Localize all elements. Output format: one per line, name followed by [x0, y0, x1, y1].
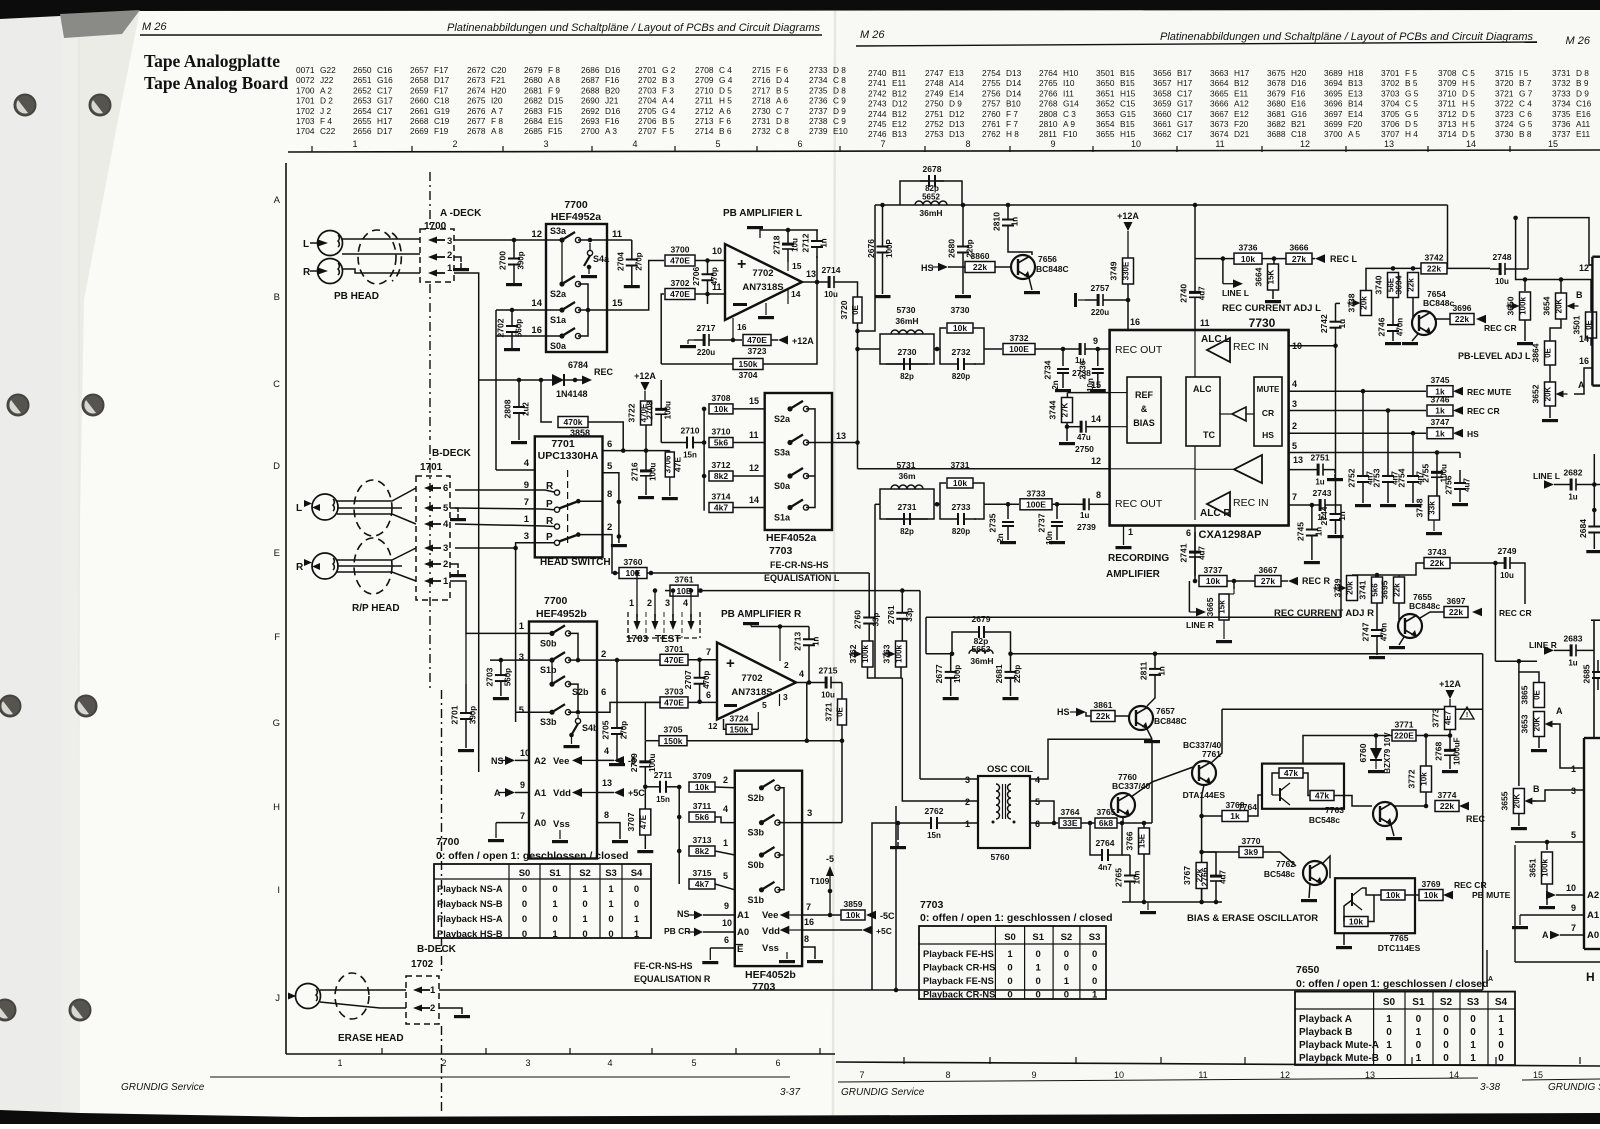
IC 7703b HEF4052b box — [735, 771, 802, 966]
svg-text:3861: 3861 — [1094, 700, 1113, 710]
wire pin5 row — [1289, 452, 1460, 454]
svg-text:2742: 2742 — [1319, 314, 1329, 333]
svg-text:4u7: 4u7 — [1198, 286, 1207, 300]
svg-text:0: 0 — [1443, 1053, 1449, 1064]
svg-text:2760: 2760 — [853, 610, 863, 629]
MUTE CR HS sub-box — [1254, 377, 1282, 446]
svg-text:0: 0 — [1498, 1053, 1504, 1064]
svg-text:0: 0 — [522, 899, 527, 910]
svg-text:S4: S4 — [1495, 997, 1508, 1008]
svg-text:33k: 33k — [1428, 501, 1437, 515]
wire 3709 to S2b — [715, 786, 735, 789]
svg-text:D14: D14 — [1006, 78, 1022, 88]
svg-text:2654: 2654 — [353, 106, 372, 116]
svg-text:GRUNDIG S: GRUNDIG S — [1548, 1082, 1600, 1093]
svg-text:G: G — [273, 718, 280, 729]
bottom scan strip — [0, 1110, 1600, 1124]
svg-text:13: 13 — [1293, 455, 1303, 465]
svg-text:3695: 3695 — [1380, 580, 1390, 599]
svg-text:2: 2 — [430, 1003, 435, 1014]
svg-text:2762: 2762 — [925, 806, 944, 816]
svg-text:3864: 3864 — [1531, 343, 1541, 362]
capacitor 2750 47u — [1066, 422, 1068, 427]
wire osc pin5 — [1030, 801, 1054, 823]
svg-text:3702: 3702 — [671, 278, 690, 288]
svg-text:F15: F15 — [548, 126, 563, 136]
svg-text:&: & — [1141, 404, 1148, 414]
svg-text:47k: 47k — [1315, 791, 1329, 801]
wire diode to flag — [564, 379, 582, 381]
svg-text:270p: 270p — [634, 252, 643, 270]
svg-text:1: 1 — [519, 621, 525, 632]
svg-text:6: 6 — [797, 139, 802, 149]
svg-text:7: 7 — [1292, 492, 1297, 502]
wire rec cr net right — [1495, 660, 1537, 662]
svg-text:7650: 7650 — [1296, 964, 1320, 976]
svg-text:3714: 3714 — [1438, 129, 1457, 139]
wire 3860 to base — [995, 266, 1011, 268]
svg-text:2755: 2755 — [1421, 464, 1431, 483]
svg-text:390p: 390p — [517, 251, 526, 269]
svg-text:B 5: B 5 — [662, 116, 675, 126]
svg-text:A 3: A 3 — [605, 126, 617, 136]
svg-text:1702: 1702 — [411, 959, 434, 970]
svg-text:H 4: H 4 — [1405, 129, 1418, 139]
footer right — [838, 1078, 1478, 1082]
svg-text:3k9: 3k9 — [1244, 847, 1258, 857]
svg-text:Vss: Vss — [553, 819, 570, 830]
resistor 3765 6k8 — [1095, 818, 1117, 828]
svg-text:470E: 470E — [670, 256, 690, 266]
svg-text:F10: F10 — [1063, 129, 1078, 139]
op-amp top supply wire — [760, 229, 818, 231]
svg-text:7762: 7762 — [1276, 859, 1295, 869]
svg-text:470n: 470n — [1380, 623, 1389, 641]
svg-text:2712: 2712 — [695, 106, 714, 116]
svg-text:470n: 470n — [1396, 318, 1405, 336]
svg-text:3654: 3654 — [1096, 119, 1115, 129]
svg-text:D 8: D 8 — [833, 85, 846, 95]
svg-text:1n: 1n — [1314, 527, 1323, 536]
svg-text:G16: G16 — [1291, 109, 1307, 119]
svg-text:2690: 2690 — [581, 96, 600, 106]
svg-text:C 4: C 4 — [1519, 99, 1532, 109]
svg-text:2737: 2737 — [1037, 513, 1047, 532]
svg-text:D16: D16 — [605, 106, 621, 116]
capacitor 2682 1u — [1554, 484, 1565, 486]
wire 2762 drop — [872, 823, 898, 990]
svg-text:6: 6 — [1186, 528, 1191, 538]
wire 3773 down — [1449, 730, 1451, 736]
svg-text:0: 0 — [1443, 1027, 1449, 1038]
svg-text:E12: E12 — [1234, 109, 1249, 119]
resistor 3702 470E — [665, 289, 695, 300]
7761 emitter down — [1202, 785, 1204, 902]
svg-text:10: 10 — [1131, 139, 1141, 149]
svg-text:16: 16 — [1130, 317, 1140, 327]
svg-text:B: B — [274, 292, 280, 303]
svg-text:3774: 3774 — [1438, 790, 1457, 800]
svg-text:E: E — [274, 548, 280, 559]
svg-text:33p: 33p — [905, 608, 914, 622]
svg-text:C 7: C 7 — [776, 106, 789, 116]
svg-text:3720: 3720 — [1495, 78, 1514, 88]
svg-text:5652: 5652 — [922, 193, 940, 202]
wire cr row — [1289, 410, 1426, 412]
svg-text:2811: 2811 — [1039, 129, 1057, 139]
svg-text:2683: 2683 — [1564, 633, 1583, 643]
ground 3706 — [669, 477, 671, 496]
REF BIAS sub-box — [1127, 377, 1161, 443]
7760 collector — [1131, 782, 1152, 797]
svg-text:A0: A0 — [737, 927, 749, 938]
bottom ruler right page — [836, 1062, 1600, 1066]
svg-text:S3: S3 — [605, 868, 617, 879]
svg-text:5: 5 — [1292, 441, 1297, 451]
svg-text:Platinenabbildungen und Schalt: Platinenabbildungen und Schaltpläne / La… — [447, 22, 821, 34]
svg-text:3694: 3694 — [1324, 78, 1343, 88]
svg-text:2674: 2674 — [467, 85, 486, 95]
connector 1702 — [406, 976, 439, 1024]
svg-text:14: 14 — [749, 495, 759, 505]
transistor 7657 BC848C — [1129, 706, 1153, 730]
pin10 A0 7703b — [703, 931, 735, 933]
svg-text:3723: 3723 — [1495, 109, 1514, 119]
svg-text:13: 13 — [806, 269, 816, 279]
svg-text:F 6: F 6 — [776, 65, 788, 75]
svg-text:2n: 2n — [1051, 380, 1060, 389]
svg-text:3654: 3654 — [1542, 296, 1552, 315]
resistor 3697 22k — [1420, 612, 1444, 618]
svg-text:F 8: F 8 — [491, 116, 503, 126]
resistor 3749 330E — [1123, 258, 1134, 284]
svg-text:1: 1 — [1571, 764, 1576, 774]
amp triangle top — [1207, 338, 1230, 362]
svg-text:REC R: REC R — [1302, 576, 1331, 586]
svg-text:R/P HEAD: R/P HEAD — [352, 603, 400, 614]
svg-text:S1b: S1b — [540, 665, 557, 675]
svg-text:3707: 3707 — [626, 812, 636, 831]
REC CR flag 7655 — [1472, 608, 1482, 617]
svg-text:2: 2 — [447, 250, 452, 261]
svg-text:2715: 2715 — [752, 65, 771, 75]
svg-text:MUTE: MUTE — [1257, 385, 1280, 394]
svg-text:Playback A: Playback A — [1299, 1014, 1352, 1025]
resistor 3721 0E — [838, 699, 847, 725]
resistor 3722 470E — [641, 401, 652, 425]
wire 3712 to S0a — [733, 475, 765, 477]
svg-text:2: 2 — [723, 775, 728, 785]
wire chain R start — [875, 503, 880, 505]
svg-text:F21: F21 — [491, 75, 506, 85]
svg-text:F19: F19 — [434, 126, 449, 136]
svg-text:B12: B12 — [892, 109, 907, 119]
svg-text:10: 10 — [722, 918, 732, 928]
pin 1 stub — [1123, 526, 1125, 546]
svg-text:2768: 2768 — [1039, 99, 1058, 109]
svg-text:F17: F17 — [434, 65, 449, 75]
svg-text:2661: 2661 — [410, 106, 429, 116]
capacitor 2742 1u — [1335, 303, 1337, 321]
wire 3655 wiper — [1532, 790, 1584, 801]
svg-text:2766: 2766 — [1039, 88, 1058, 98]
svg-text:A1: A1 — [737, 910, 750, 921]
svg-text:C19: C19 — [434, 116, 450, 126]
svg-text:4u7: 4u7 — [1463, 478, 1472, 492]
svg-text:PB AMPLIFIER R: PB AMPLIFIER R — [721, 609, 802, 620]
svg-text:3667: 3667 — [1210, 109, 1229, 119]
svg-text:1: 1 — [1386, 1040, 1392, 1051]
svg-text:0072: 0072 — [296, 75, 315, 85]
svg-text:+: + — [726, 655, 735, 672]
internal wires 7730 — [1194, 330, 1196, 377]
svg-text:E: E — [737, 944, 743, 955]
svg-text:22k: 22k — [973, 262, 987, 272]
svg-text:10k: 10k — [1241, 254, 1255, 264]
svg-text:1700: 1700 — [424, 221, 447, 232]
svg-text:PB AMPLIFIER L: PB AMPLIFIER L — [723, 208, 802, 219]
svg-text:3724: 3724 — [730, 713, 749, 723]
svg-text:UPC1330HA: UPC1330HA — [538, 450, 599, 462]
wire 3760 net right — [868, 573, 870, 617]
svg-text:F 7: F 7 — [1006, 119, 1018, 129]
wire pin2 ground — [454, 257, 461, 262]
svg-text:S2b: S2b — [748, 793, 765, 803]
switch S3a eq — [787, 440, 792, 445]
svg-text:2752: 2752 — [1347, 468, 1357, 487]
pin5 1701 ground — [450, 508, 458, 512]
wire to 3721 — [841, 683, 843, 700]
svg-text:3663: 3663 — [1210, 68, 1229, 78]
svg-text:7700: 7700 — [436, 836, 460, 848]
wire 2738 to pin9 — [1091, 348, 1110, 350]
svg-text:2732: 2732 — [952, 347, 971, 357]
svg-text:3: 3 — [965, 775, 970, 785]
svg-text:Playback CR-HS: Playback CR-HS — [923, 963, 995, 973]
switch S3b eq — [759, 820, 764, 825]
svg-text:1n: 1n — [1338, 511, 1347, 520]
svg-text:7702: 7702 — [741, 673, 762, 684]
footer left — [210, 1076, 790, 1078]
svg-text:REC CR: REC CR — [1467, 406, 1500, 416]
svg-text:5: 5 — [1571, 830, 1576, 840]
svg-text:2756: 2756 — [982, 88, 1001, 98]
svg-text:5730: 5730 — [897, 305, 916, 315]
svg-text:2755: 2755 — [982, 78, 1001, 88]
svg-text:B21: B21 — [1291, 119, 1306, 129]
svg-text:S1a: S1a — [774, 513, 791, 523]
svg-text:220u: 220u — [1091, 308, 1109, 317]
svg-text:REC CR: REC CR — [1499, 608, 1532, 618]
svg-text:D17: D17 — [434, 75, 450, 85]
wire rail to pin12 box — [1447, 205, 1449, 269]
svg-text:27K: 27K — [1061, 402, 1070, 417]
capacitor 2811 1n — [1154, 654, 1156, 669]
svg-text:3697: 3697 — [1324, 109, 1343, 119]
svg-text:3749: 3749 — [1109, 261, 1119, 280]
svg-text:2730: 2730 — [898, 347, 917, 357]
svg-text:3702: 3702 — [1381, 78, 1400, 88]
svg-text:AMPLIFIER: AMPLIFIER — [1106, 569, 1161, 580]
svg-text:3720: 3720 — [839, 300, 849, 319]
wire 2682 right — [1583, 484, 1600, 486]
svg-text:LINE R: LINE R — [1186, 620, 1214, 630]
svg-text:7: 7 — [880, 139, 885, 149]
svg-text:RECORDING: RECORDING — [1108, 553, 1169, 564]
svg-text:A11: A11 — [1576, 119, 1591, 129]
svg-text:E11: E11 — [892, 78, 907, 88]
svg-text:3501: 3501 — [1572, 315, 1582, 334]
svg-text:1u: 1u — [1338, 319, 1347, 328]
svg-text:3761: 3761 — [675, 575, 694, 585]
svg-text:4u7: 4u7 — [1219, 870, 1228, 884]
capacitor 2714 10u — [822, 281, 828, 283]
svg-text:3675: 3675 — [1267, 68, 1286, 78]
internal wire S3a-S2a common — [561, 240, 563, 284]
svg-text:2677: 2677 — [467, 116, 486, 126]
svg-text:C 3: C 3 — [1063, 109, 1076, 119]
svg-text:G16: G16 — [377, 75, 393, 85]
capacitor 2761 33p — [901, 594, 903, 600]
svg-text:2672: 2672 — [467, 65, 486, 75]
svg-text:20k: 20k — [1346, 581, 1355, 595]
capacitor 2808 2u2 — [518, 380, 520, 407]
pin 5 wire — [603, 473, 619, 543]
svg-text:2706: 2706 — [691, 267, 701, 286]
svg-text:14: 14 — [791, 289, 801, 299]
svg-text:2685: 2685 — [1582, 664, 1592, 683]
capacitor 2748 10u — [1447, 267, 1490, 269]
svg-text:100P: 100P — [885, 238, 894, 257]
svg-text:2715: 2715 — [819, 666, 838, 676]
svg-text:1: 1 — [1064, 976, 1070, 987]
capacitor 2679 82p loop — [952, 632, 979, 654]
svg-text:B17: B17 — [1177, 68, 1192, 78]
svg-text:3704: 3704 — [1381, 99, 1400, 109]
svg-text:2651: 2651 — [353, 75, 372, 85]
punch holes — [15, 95, 36, 116]
warning triangle — [1460, 707, 1474, 719]
svg-text:27k: 27k — [1292, 254, 1306, 264]
svg-text:2: 2 — [784, 660, 789, 670]
svg-text:1702: 1702 — [296, 106, 315, 116]
wire 2762 ground stub — [897, 823, 899, 840]
wire 2713 to output — [808, 658, 810, 683]
svg-text:7656: 7656 — [1038, 254, 1057, 264]
svg-text:L: L — [296, 503, 302, 514]
svg-text:27k: 27k — [1261, 576, 1275, 586]
svg-text:0: 0 — [1007, 990, 1012, 1001]
capacitor 2718 10u — [787, 230, 789, 243]
capacitor 2743 1u — [1313, 504, 1319, 506]
R/P head L — [312, 494, 338, 520]
svg-text:H17: H17 — [1177, 78, 1193, 88]
capacitor 2764 4n7 loop — [1090, 823, 1098, 855]
svg-text:1: 1 — [582, 914, 588, 925]
svg-text:2717: 2717 — [752, 85, 771, 95]
wire 3702 to op-amp - — [695, 293, 725, 295]
svg-text:3715: 3715 — [1495, 68, 1514, 78]
connector 1701 B-deck — [416, 476, 450, 600]
svg-text:22k: 22k — [1407, 278, 1416, 292]
wire B head common vertical — [495, 310, 497, 470]
svg-text:2747: 2747 — [925, 68, 944, 78]
resistor 3733 100E — [1020, 499, 1052, 510]
svg-text:DTA144ES: DTA144ES — [1183, 790, 1226, 800]
svg-text:D15: D15 — [548, 96, 564, 106]
svg-text:3734: 3734 — [1552, 99, 1571, 109]
svg-text:22k: 22k — [1449, 607, 1463, 617]
svg-text:82p: 82p — [900, 372, 914, 381]
svg-text:C17: C17 — [1177, 109, 1193, 119]
svg-text:2748: 2748 — [1493, 252, 1512, 262]
svg-text:3730: 3730 — [1495, 129, 1514, 139]
capacitor 2712 1n — [816, 230, 818, 241]
table 7700 — [434, 864, 651, 938]
svg-text:2687: 2687 — [581, 75, 600, 85]
svg-text:2669: 2669 — [410, 126, 429, 136]
svg-text:2658: 2658 — [410, 75, 429, 85]
svg-text:7703: 7703 — [769, 545, 793, 557]
svg-text:3760: 3760 — [624, 557, 643, 567]
svg-text:2810: 2810 — [992, 212, 1002, 231]
svg-text:2750: 2750 — [925, 99, 944, 109]
svg-text:6: 6 — [607, 439, 612, 450]
resistor 3773 4E7 — [1445, 707, 1456, 730]
connector 1700 A-deck — [420, 229, 454, 282]
wire pin11 riser — [1194, 205, 1196, 259]
svg-text:2734: 2734 — [809, 75, 828, 85]
svg-text:3865: 3865 — [1520, 685, 1530, 704]
svg-text:3-38: 3-38 — [1480, 1082, 1500, 1093]
output wire L — [802, 281, 822, 283]
svg-text:REC OUT: REC OUT — [1115, 498, 1163, 510]
svg-text:2653: 2653 — [353, 96, 372, 106]
svg-text:S0a: S0a — [774, 481, 791, 491]
amp triangle bottom — [1207, 492, 1230, 516]
svg-text:3: 3 — [543, 139, 548, 149]
svg-text:Playback Mute-A: Playback Mute-A — [1299, 1040, 1379, 1051]
svg-text:G19: G19 — [434, 106, 450, 116]
svg-text:J: J — [275, 993, 280, 1004]
svg-text:E16: E16 — [1576, 109, 1591, 119]
switch S1a — [546, 309, 562, 311]
wire pot top row — [1366, 268, 1422, 290]
svg-text:A2: A2 — [1587, 890, 1599, 901]
svg-text:0: 0 — [552, 914, 557, 925]
wire pots tops — [1524, 280, 1526, 292]
erase riser mid — [895, 806, 897, 990]
svg-text:10: 10 — [712, 246, 722, 256]
svg-text:S0a: S0a — [550, 341, 567, 351]
svg-text:3689: 3689 — [1324, 68, 1343, 78]
svg-text:2739: 2739 — [1077, 522, 1096, 532]
capacitor 2760 33p — [868, 600, 870, 618]
svg-text:3673: 3673 — [1210, 119, 1229, 129]
svg-text:22k: 22k — [1427, 264, 1441, 274]
Vss internal ground 7700b — [559, 830, 561, 839]
table 7703 — [919, 926, 1106, 999]
capacitor 2708 100u — [660, 380, 662, 408]
svg-text:22k: 22k — [1430, 558, 1444, 568]
wire node — [934, 348, 940, 350]
svg-text:H 5: H 5 — [719, 96, 732, 106]
wire pin16 7700a — [496, 335, 546, 337]
svg-text:13: 13 — [836, 431, 846, 441]
svg-text:100k: 100k — [895, 645, 904, 663]
svg-text:I20: I20 — [491, 96, 503, 106]
svg-text:6: 6 — [601, 687, 606, 698]
